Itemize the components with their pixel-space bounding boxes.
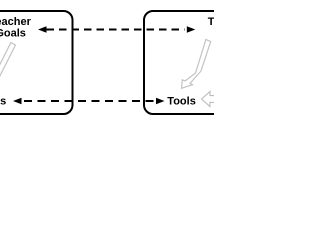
svg-text:Teacher: Teacher <box>0 16 32 28</box>
svg-text:Tools: Tools <box>0 96 6 108</box>
svg-text:Tools: Tools <box>167 96 196 108</box>
svg-text:Goals: Goals <box>0 27 26 39</box>
svg-text:Teacher: Teacher <box>208 16 214 28</box>
